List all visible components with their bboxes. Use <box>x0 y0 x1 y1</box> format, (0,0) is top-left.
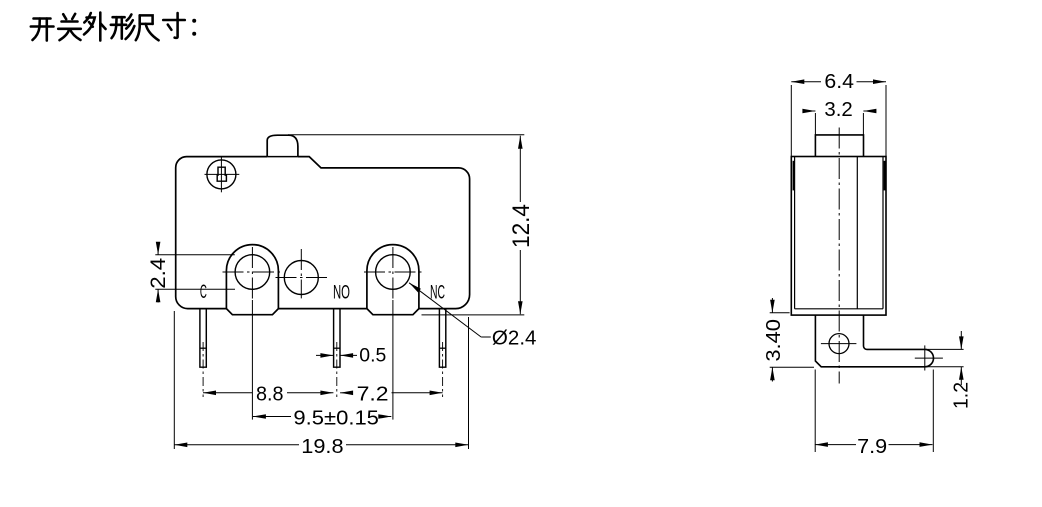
dim 19.8 line <box>174 444 468 446</box>
dim 19.8 text <box>301 436 343 458</box>
mounting hole keyhole slot <box>217 167 226 181</box>
front view switch body outline <box>176 157 470 309</box>
dim 3.2 arrows <box>802 109 876 114</box>
label C <box>200 282 207 303</box>
dim 19.8 extension lines <box>174 311 468 449</box>
mounting hole crosshair <box>205 158 240 193</box>
title text 开关外形尺寸: <box>31 13 196 41</box>
centerline horizontal C <box>223 271 282 273</box>
dim 12.4 extension lines <box>288 135 524 315</box>
svg-text:6.4: 6.4 <box>824 71 854 93</box>
centerline horizontal NO <box>276 277 330 279</box>
dim 7.9 text <box>857 436 887 458</box>
terminal boss NC <box>367 245 419 315</box>
dim 7.9 line <box>815 444 933 446</box>
svg-text:C: C <box>200 282 207 303</box>
svg-text:3.2: 3.2 <box>824 99 852 121</box>
svg-text:8.8: 8.8 <box>256 383 284 405</box>
label NC <box>430 283 445 304</box>
svg-text:NO: NO <box>333 282 350 303</box>
side body parting line <box>856 157 858 309</box>
side bracket hole crosshair <box>821 343 857 345</box>
terminal hole NC <box>376 255 411 290</box>
terminal pin NO <box>334 309 340 368</box>
dim 6.4 extension lines <box>791 85 886 157</box>
dim 2.4 arrows <box>156 242 161 303</box>
dim 3.40 arrows <box>770 298 775 382</box>
dim 2.4 extension lines <box>155 255 235 290</box>
side body inner lines <box>795 157 883 309</box>
front view plunger button <box>267 135 298 156</box>
centerline vertical C <box>251 247 253 420</box>
dim 3.2 text <box>824 99 852 121</box>
svg-text:1.2: 1.2 <box>951 382 973 409</box>
dim 19.8 arrows <box>174 443 468 448</box>
dim 1.2 text <box>951 382 973 409</box>
dim 6.4 line <box>791 81 886 83</box>
dim 3.40 text <box>763 319 785 362</box>
terminal pin C <box>200 309 206 368</box>
side tip crosshair <box>915 345 943 370</box>
svg-text:7.9: 7.9 <box>857 436 887 458</box>
svg-text:2.4: 2.4 <box>147 257 170 288</box>
dim 12.4 text <box>508 204 535 248</box>
terminal pin C centerline <box>202 342 204 397</box>
dim 3.2 extension lines <box>815 113 863 135</box>
mounting hole circle <box>207 160 236 189</box>
svg-text:7.2: 7.2 <box>357 383 389 405</box>
terminal hole C <box>235 255 270 290</box>
dim 6.4 text <box>824 71 854 93</box>
side clip ear right <box>884 161 886 191</box>
svg-text:0.5: 0.5 <box>359 346 386 367</box>
leader Ø2.4 text <box>492 328 537 350</box>
label NO <box>333 282 350 303</box>
terminal hole NO <box>284 261 318 295</box>
terminal pin NO centerline <box>336 342 338 397</box>
svg-text:3.40: 3.40 <box>763 319 785 362</box>
side clip ear left <box>793 161 795 191</box>
svg-text:9.5±0.15: 9.5±0.15 <box>293 408 379 430</box>
terminal pin NC <box>439 309 445 368</box>
dim 0.5 arrows <box>316 353 357 358</box>
svg-text:12.4: 12.4 <box>508 204 535 248</box>
dim 8.8 text <box>256 383 284 405</box>
dim 7.9 extension lines <box>815 370 933 453</box>
side plunger button <box>815 135 863 157</box>
centerline vertical NO <box>300 249 302 298</box>
dim 9.5 arrows <box>253 414 391 419</box>
dim 9.5 text <box>293 408 379 430</box>
dim 0.5 text <box>359 346 386 367</box>
centerline horizontal NC <box>364 271 423 273</box>
leader Ø2.4 <box>409 283 491 337</box>
svg-text:Ø2.4: Ø2.4 <box>492 328 537 350</box>
dim 2.4 text <box>147 257 170 288</box>
dim 1.2 extension lines <box>925 349 964 366</box>
dim 7.2 text <box>357 383 389 405</box>
dim 3.40 extension lines <box>770 313 814 367</box>
dim 8.8 7.2 arrows <box>203 391 443 396</box>
side bracket hole <box>829 334 849 354</box>
dim 8.8 7.2 line <box>203 392 443 394</box>
side body outline <box>791 157 886 316</box>
dim 12.4 line and arrows <box>518 136 523 315</box>
centerline vertical NC <box>392 247 394 420</box>
dim 7.9 arrows <box>815 442 933 447</box>
dim 6.4 arrows <box>791 79 886 84</box>
side centerline <box>838 128 840 384</box>
dim 9.5 line <box>253 416 391 418</box>
terminal pin NC centerline <box>442 342 444 397</box>
svg-text:19.8: 19.8 <box>301 436 343 458</box>
dim 1.2 arrows <box>959 331 964 385</box>
side bracket outline <box>815 315 933 367</box>
terminal boss C <box>226 245 278 315</box>
